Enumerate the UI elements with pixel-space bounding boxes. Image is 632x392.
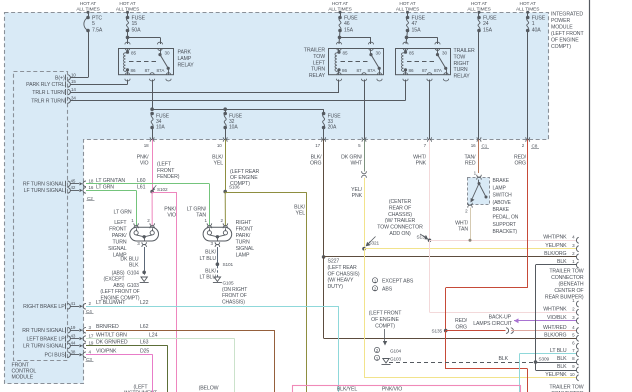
svg-text:CHASSIS): CHASSIS) xyxy=(388,212,412,218)
lamp E1 left front park/turn signal lamp xyxy=(130,227,159,241)
svg-text:LT GRN/TAN: LT GRN/TAN xyxy=(96,178,125,184)
svg-text:LT GRN: LT GRN xyxy=(114,210,132,216)
svg-text:RELAY: RELAY xyxy=(454,74,471,80)
svg-text:C1: C1 xyxy=(482,144,488,149)
svg-text:(BENEATH: (BENEATH xyxy=(558,282,583,288)
svg-text:RIGHT BRAKE LP: RIGHT BRAKE LP xyxy=(23,304,65,310)
wire BLK S309 to 7-way pin9 xyxy=(535,362,537,370)
circuit breaker PTC 5 7.5A xyxy=(86,16,90,20)
svg-text:TURN: TURN xyxy=(311,67,325,73)
svg-text:TOW CONNECTOR: TOW CONNECTOR xyxy=(377,225,423,231)
wire fuse47 to TT-right relay 85/30 xyxy=(406,31,408,45)
svg-text:B(+): B(+) xyxy=(55,75,65,81)
wire fuse1 to C8 pin2 xyxy=(527,31,529,140)
wire RED/ORG S135 to inline connector xyxy=(446,330,506,332)
svg-text:44: 44 xyxy=(71,341,76,346)
svg-text:S101: S101 xyxy=(223,262,234,267)
trailer tow connector bracket xyxy=(589,0,591,392)
wire RED/ORG fuse1/C8 down and to S135 xyxy=(527,140,529,288)
svg-text:LT BLU: LT BLU xyxy=(199,256,216,262)
relay K3 trailer tow right turn relay xyxy=(396,49,451,75)
svg-text:PEDAL, ON: PEDAL, ON xyxy=(493,215,519,221)
svg-text:ADD ON): ADD ON) xyxy=(389,231,411,237)
svg-text:YEL: YEL xyxy=(295,211,305,217)
svg-text:(ABOVE: (ABOVE xyxy=(493,200,512,206)
svg-text:SIGNAL: SIGNAL xyxy=(108,246,127,252)
svg-text:RELAY: RELAY xyxy=(309,73,326,79)
svg-text:86: 86 xyxy=(342,68,347,73)
IPM connector pin 16 xyxy=(477,137,481,139)
svg-text:WHT/LT GRN: WHT/LT GRN xyxy=(96,332,127,338)
svg-text:10: 10 xyxy=(71,72,76,77)
svg-text:42: 42 xyxy=(71,185,76,190)
svg-text:G105: G105 xyxy=(223,280,235,285)
svg-text:FRONT OF: FRONT OF xyxy=(222,293,247,299)
svg-text:LAMP: LAMP xyxy=(178,56,192,62)
svg-text:BRACKET): BRACKET) xyxy=(493,229,518,235)
svg-text:LR TURN SIGNAL: LR TURN SIGNAL xyxy=(23,344,65,350)
svg-text:TURN: TURN xyxy=(454,67,468,73)
trailer tow connector 7-way pin 1 xyxy=(576,301,578,307)
svg-text:LAMP: LAMP xyxy=(236,252,250,258)
svg-text:14: 14 xyxy=(71,87,76,92)
svg-text:TURN: TURN xyxy=(112,239,126,245)
trailer tow connector 7-way pin 7 LT BLU xyxy=(576,351,578,357)
svg-text:FRONT: FRONT xyxy=(236,226,254,232)
wire trlr r turn to K3 pin 86 xyxy=(70,100,406,102)
svg-text:RED: RED xyxy=(465,161,476,167)
svg-text:PARK: PARK xyxy=(178,50,192,56)
front control module box xyxy=(14,72,68,361)
svg-text:OF CHASSIS): OF CHASSIS) xyxy=(328,271,360,277)
svg-text:34: 34 xyxy=(71,95,76,100)
svg-text:17: 17 xyxy=(89,333,94,338)
svg-text:RF TURN SIGNAL: RF TURN SIGNAL xyxy=(23,182,65,188)
svg-text:PARK RLY CTRL: PARK RLY CTRL xyxy=(26,82,65,88)
svg-text:S227: S227 xyxy=(328,259,340,265)
svg-text:(LEFT FRONT OF: (LEFT FRONT OF xyxy=(100,289,139,295)
svg-text:L22: L22 xyxy=(140,300,149,306)
svg-text:(ABS): (ABS) xyxy=(112,270,125,276)
svg-text:LT BLU: LT BLU xyxy=(199,275,216,281)
svg-text:(CENTER: (CENTER xyxy=(389,199,412,205)
trailer tow connector 7-way pin 2 WHT/PNK xyxy=(576,309,578,315)
svg-text:WHT/RED: WHT/RED xyxy=(543,325,567,331)
node S106 xyxy=(223,190,227,194)
svg-text:(LEFT: (LEFT xyxy=(157,162,172,168)
svg-text:15A: 15A xyxy=(483,28,493,34)
fuse F46 15A xyxy=(338,16,342,20)
wire PNK/VIO from fuse34 to S102 xyxy=(152,140,154,192)
wire YEL/PNK to S321 xyxy=(364,178,366,249)
svg-text:TOW: TOW xyxy=(454,54,466,60)
svg-text:24: 24 xyxy=(483,21,489,27)
wire BLK/YEL S106 to right lamp pin2 xyxy=(224,192,226,226)
svg-text:5: 5 xyxy=(92,21,95,27)
wire BLK/YEL S106 branch down xyxy=(225,192,306,194)
svg-text:(LEFT FRONT: (LEFT FRONT xyxy=(551,31,584,37)
wire BLK/LT BLU S101 to G105 xyxy=(217,266,219,277)
svg-text:RIGHT: RIGHT xyxy=(454,61,471,67)
svg-text:L24: L24 xyxy=(149,332,158,338)
svg-text:OF ENGINE: OF ENGINE xyxy=(551,38,579,44)
svg-text:YEL: YEL xyxy=(213,161,223,167)
wire fuse15 to park relay 85/30 xyxy=(127,31,129,45)
svg-text:COMPT): COMPT) xyxy=(375,323,395,329)
svg-text:TAN: TAN xyxy=(458,227,468,233)
wire BLK/YEL from fuse32 to S106 xyxy=(225,140,227,192)
node S130 xyxy=(428,239,432,243)
svg-text:YEL/PNK: YEL/PNK xyxy=(545,372,567,378)
svg-text:VIO/PNK: VIO/PNK xyxy=(96,349,117,355)
ground G103 (except ABS) xyxy=(144,272,146,276)
IPM connector pin 17 xyxy=(322,137,326,139)
svg-text:CONTROL: CONTROL xyxy=(12,369,37,375)
ground G105 xyxy=(214,277,220,282)
trailer tow connector 7-way pin 8 BLK xyxy=(576,359,578,365)
svg-text:PARK/: PARK/ xyxy=(112,233,127,239)
svg-text:10: 10 xyxy=(570,372,575,377)
bottom connector box xyxy=(293,386,521,392)
svg-text:85: 85 xyxy=(131,51,136,56)
svg-text:TRAILER TOW: TRAILER TOW xyxy=(549,269,583,275)
svg-text:BACK-UP: BACK-UP xyxy=(489,315,512,321)
svg-text:FENDER): FENDER) xyxy=(157,174,180,180)
wire YEL/PNK S321 to trailer connector pin3 xyxy=(364,248,577,250)
wire WHT/PNK S130 down to 7-way pin2 xyxy=(429,240,431,312)
fuse F34 10A xyxy=(150,112,154,116)
svg-text:HOT AT: HOT AT xyxy=(119,1,135,7)
svg-text:45: 45 xyxy=(71,179,76,184)
svg-text:S135: S135 xyxy=(431,329,442,334)
svg-text:BRAKE: BRAKE xyxy=(493,207,510,213)
svg-text:87: 87 xyxy=(145,68,150,73)
svg-text:L63: L63 xyxy=(140,340,149,346)
svg-text:OF ENGINE: OF ENGINE xyxy=(371,317,399,323)
svg-text:CONNECTOR: CONNECTOR xyxy=(551,275,584,281)
svg-text:EXCEPT ABS: EXCEPT ABS xyxy=(382,279,414,285)
svg-text:(EXCEPT: (EXCEPT xyxy=(104,277,125,283)
svg-text:19: 19 xyxy=(71,325,76,330)
node S309 xyxy=(534,360,538,364)
svg-text:PCI BUS: PCI BUS xyxy=(45,353,66,359)
IPM connector pin 7 xyxy=(428,137,432,139)
svg-text:15A: 15A xyxy=(412,28,422,34)
svg-text:40A: 40A xyxy=(532,28,542,34)
svg-text:S106: S106 xyxy=(229,185,240,190)
IPM connector pin 10 xyxy=(223,137,227,139)
svg-text:85: 85 xyxy=(343,51,348,56)
svg-text:G104: G104 xyxy=(127,270,139,276)
wire BLK/ORG S227 to trailer connector pin2 xyxy=(324,256,577,258)
inline connector to WHT/RED xyxy=(506,328,509,334)
svg-text:15A: 15A xyxy=(344,28,354,34)
svg-text:TRAILER TOW: TRAILER TOW xyxy=(549,385,583,391)
IPM connector pin 2 xyxy=(526,137,530,139)
lamp E2 right front park/turn signal lamp xyxy=(203,227,232,241)
wire K2 87 down to pin 5 xyxy=(364,80,366,140)
svg-text:BLK/YEL: BLK/YEL xyxy=(337,387,358,392)
svg-text:S102: S102 xyxy=(157,187,168,192)
svg-text:87A: 87A xyxy=(434,68,443,73)
svg-text:C2: C2 xyxy=(87,196,93,201)
svg-text:CHASSIS): CHASSIS) xyxy=(222,300,245,306)
svg-text:DUTY): DUTY) xyxy=(328,284,344,290)
wire PNK/VIO S102 to left lamp pin2 xyxy=(151,192,153,226)
wire BLK 4-way pin1 to S309 xyxy=(536,264,577,266)
svg-text:46: 46 xyxy=(344,21,350,27)
svg-text:87A: 87A xyxy=(368,68,377,73)
svg-text:TRAILER: TRAILER xyxy=(454,48,476,54)
svg-text:HOT AT: HOT AT xyxy=(520,1,536,7)
svg-text:(W/ TRAILER: (W/ TRAILER xyxy=(385,218,416,224)
svg-text:HOT AT: HOT AT xyxy=(80,1,96,7)
wire YEL/PNK S321 down to trailer connector pin10 xyxy=(364,249,366,378)
svg-text:C8: C8 xyxy=(532,144,538,149)
svg-text:FRONT: FRONT xyxy=(12,362,30,368)
svg-text:BLK/ORG: BLK/ORG xyxy=(544,251,566,257)
svg-text:HOT AT: HOT AT xyxy=(399,1,415,7)
wire fuse24 to C1 pin16 xyxy=(478,31,480,140)
wire PTC to FCM B(+) xyxy=(88,31,90,78)
wire PNK/VIO S102 branch down xyxy=(152,192,177,194)
svg-text:ORG: ORG xyxy=(514,161,526,167)
ground symbol G103/G104 xyxy=(383,359,389,364)
relay K1 park lamp relay xyxy=(119,49,174,75)
svg-text:CENTER OF: CENTER OF xyxy=(554,288,583,294)
svg-text:YEL/PNK: YEL/PNK xyxy=(545,243,567,249)
fuse F1 40A xyxy=(526,16,530,20)
wire WHT/RED to 7-way pin4 xyxy=(511,330,577,332)
svg-text:WHT/PNK: WHT/PNK xyxy=(543,307,567,313)
trailer tow connector 7-way pin 4 WHT/RED xyxy=(576,328,578,334)
wire K1 87 to fuse tee xyxy=(152,80,154,110)
svg-text:BLK/ORG: BLK/ORG xyxy=(544,333,566,339)
svg-text:BLK: BLK xyxy=(498,356,508,362)
svg-text:47: 47 xyxy=(412,21,418,27)
svg-text:TRAILER: TRAILER xyxy=(304,48,326,54)
trailer tow connector 7-way pin 6 xyxy=(576,343,578,349)
svg-text:G103: G103 xyxy=(127,283,139,289)
wire fuse46 to TT-left relay 85/30 xyxy=(339,31,340,45)
svg-text:LT BLU: LT BLU xyxy=(550,348,567,354)
svg-text:BLK: BLK xyxy=(557,356,567,362)
svg-text:G104: G104 xyxy=(390,349,402,354)
trailer tow connector 7-way pin 5 BLK/ORG xyxy=(576,335,578,341)
svg-text:SUPPORT: SUPPORT xyxy=(493,222,516,228)
svg-text:MODULE: MODULE xyxy=(12,375,34,381)
svg-text:ORG: ORG xyxy=(310,161,322,167)
svg-text:REAR BUMPER): REAR BUMPER) xyxy=(545,295,584,301)
svg-text:SIGNAL: SIGNAL xyxy=(236,246,255,252)
svg-text:LEFT: LEFT xyxy=(114,220,127,226)
svg-text:BRN/RED: BRN/RED xyxy=(96,324,119,330)
svg-text:ORG: ORG xyxy=(455,325,467,331)
svg-text:LEFT BRAKE LP: LEFT BRAKE LP xyxy=(26,336,65,342)
svg-text:TOW: TOW xyxy=(313,54,325,60)
svg-text:17: 17 xyxy=(315,143,320,148)
svg-text:30: 30 xyxy=(442,51,447,56)
trailer tow connector 7-way pin 3 VIO/BLK xyxy=(576,318,578,324)
wire WHT/TAN sw to WHT/PNK row xyxy=(470,208,472,241)
svg-text:87: 87 xyxy=(357,68,362,73)
svg-text:HOT AT: HOT AT xyxy=(471,1,487,7)
legend except abs xyxy=(372,278,377,283)
svg-text:BRAKE: BRAKE xyxy=(493,178,510,184)
IPM connector pin 18 xyxy=(150,137,154,139)
wire BLK/ORG S227 down to trailer connector pin5 xyxy=(323,257,325,338)
svg-text:16: 16 xyxy=(471,143,476,148)
svg-text:10A: 10A xyxy=(156,125,165,131)
svg-text:DK BLU: DK BLU xyxy=(120,256,138,262)
svg-text:86: 86 xyxy=(131,68,136,73)
svg-text:(LEFT REAR: (LEFT REAR xyxy=(328,265,358,271)
svg-text:L62: L62 xyxy=(140,324,149,330)
svg-text:19: 19 xyxy=(89,341,94,346)
svg-text:RIGHT: RIGHT xyxy=(236,220,253,226)
svg-text:(LEFT FRONT: (LEFT FRONT xyxy=(369,311,402,317)
svg-text:L60: L60 xyxy=(137,178,146,184)
node S135 xyxy=(444,329,448,333)
wire BLK S309 to 7-way pin8 xyxy=(536,362,577,364)
wire BLK/ORG from fuse33 to S227 xyxy=(323,140,325,257)
svg-text:7.5A: 7.5A xyxy=(92,28,103,34)
wire trlr l turn to K2 pin 86 xyxy=(70,92,339,94)
svg-text:30: 30 xyxy=(165,51,170,56)
wire LT BLU to 7-way pin7 xyxy=(519,354,521,392)
fuse F24 15A xyxy=(477,16,481,20)
svg-text:COMPT): COMPT) xyxy=(551,44,571,50)
svg-text:(LEFT: (LEFT xyxy=(134,384,149,390)
svg-text:POWER: POWER xyxy=(551,18,570,24)
svg-text:FRONT: FRONT xyxy=(157,168,175,174)
svg-text:TRLR L TURN: TRLR L TURN xyxy=(32,90,65,96)
svg-text:PARK/: PARK/ xyxy=(236,233,251,239)
svg-text:41: 41 xyxy=(71,301,76,306)
svg-text:LT BLU/WHT: LT BLU/WHT xyxy=(96,300,126,306)
svg-text:10: 10 xyxy=(217,143,222,148)
trailer tow connector 7-way pin 10 YEL/PNK xyxy=(576,375,578,381)
svg-text:LAMP: LAMP xyxy=(493,185,507,191)
svg-text:BLK: BLK xyxy=(129,262,139,268)
svg-text:WHT/PNK: WHT/PNK xyxy=(543,235,567,241)
svg-text:WHT: WHT xyxy=(350,161,362,167)
svg-text:ABS): ABS) xyxy=(113,283,125,289)
svg-text:(BELOW: (BELOW xyxy=(199,385,219,391)
svg-text:DK GRN/RED: DK GRN/RED xyxy=(96,340,128,346)
svg-text:PNK/VIO: PNK/VIO xyxy=(382,387,402,392)
svg-text:LEFT: LEFT xyxy=(313,60,326,66)
wire park rly ctrl to relay 86 xyxy=(70,84,128,86)
fuse F15 50A xyxy=(126,16,130,20)
svg-text:HOT AT: HOT AT xyxy=(332,1,348,7)
IPM connector pin 5 xyxy=(362,137,366,139)
svg-text:BLK/: BLK/ xyxy=(205,268,217,274)
node S102 xyxy=(150,190,154,194)
svg-text:MODULE: MODULE xyxy=(551,25,573,31)
svg-text:PNK: PNK xyxy=(352,193,363,199)
ground node G104 (ABS) xyxy=(142,271,146,275)
svg-text:RED/: RED/ xyxy=(455,318,468,324)
svg-text:BLK/: BLK/ xyxy=(205,250,217,256)
svg-text:REAR OF: REAR OF xyxy=(389,205,411,211)
svg-text:VIO/BLK: VIO/BLK xyxy=(547,315,567,321)
wire TAN/RED fuse24 to brake lamp switch xyxy=(478,140,480,174)
wire BLK dashed ground to S309 xyxy=(389,362,534,364)
wire K3 87 down to pin 7 xyxy=(429,80,431,140)
node S321 xyxy=(362,247,366,251)
trailer tow connector 7-way pin 9 BLK xyxy=(576,367,578,373)
svg-text:(ON RIGHT: (ON RIGHT xyxy=(222,287,247,293)
svg-text:VIO: VIO xyxy=(167,213,176,219)
svg-text:18: 18 xyxy=(89,179,94,184)
svg-text:LT GRN: LT GRN xyxy=(96,185,114,191)
fuse F47 15A xyxy=(406,16,410,20)
svg-text:10A: 10A xyxy=(229,125,238,131)
wire WHT/PNK S130 to trailer connector pin4 xyxy=(430,240,577,242)
svg-text:(W/ HEAVY: (W/ HEAVY xyxy=(328,278,354,284)
wire WHT/PNK from K3 87 to S130 xyxy=(429,140,431,241)
wire DK BLU / BLK left lamp to ground xyxy=(144,247,146,271)
svg-text:15: 15 xyxy=(71,79,76,84)
svg-text:16: 16 xyxy=(89,185,94,190)
svg-text:C4: C4 xyxy=(86,309,92,314)
svg-text:50A: 50A xyxy=(132,28,142,34)
svg-text:1: 1 xyxy=(532,21,535,27)
fuse F32 10A xyxy=(225,109,227,113)
svg-text:RR TURN SIGNAL: RR TURN SIGNAL xyxy=(22,328,65,334)
svg-text:86: 86 xyxy=(409,68,414,73)
svg-text:43: 43 xyxy=(71,333,76,338)
svg-text:ABS: ABS xyxy=(382,287,393,293)
svg-text:G103: G103 xyxy=(390,356,402,361)
svg-text:RELAY: RELAY xyxy=(178,63,195,69)
relay K2 trailer tow left turn relay xyxy=(329,49,384,75)
svg-text:30: 30 xyxy=(376,51,381,56)
svg-text:C3: C3 xyxy=(86,357,92,362)
brake lamp switch SW1 xyxy=(468,178,490,205)
svg-text:TRLR R TURN: TRLR R TURN xyxy=(31,98,65,104)
wire DK GRN/WHT from K2 87 xyxy=(364,140,366,172)
svg-text:15: 15 xyxy=(132,21,138,27)
svg-text:20A: 20A xyxy=(328,125,337,131)
inline connector C143 xyxy=(362,171,367,174)
wire RED/ORG S135 down to back-up lamps feed xyxy=(445,331,447,369)
svg-text:FRONT: FRONT xyxy=(109,226,127,232)
svg-text:LF TURN SIGNAL: LF TURN SIGNAL xyxy=(24,188,65,194)
node S227 xyxy=(322,255,326,259)
node S101 xyxy=(216,262,220,266)
svg-text:87: 87 xyxy=(422,68,427,73)
fuse F33 20A xyxy=(323,109,325,113)
svg-text:VIO: VIO xyxy=(140,161,149,167)
svg-text:BLK: BLK xyxy=(557,364,567,370)
svg-text:TURN: TURN xyxy=(236,239,250,245)
svg-text:S309: S309 xyxy=(539,356,550,361)
wire BLK/LT BLU right lamp to S101 xyxy=(217,247,219,263)
svg-text:SWITCH: SWITCH xyxy=(493,193,513,199)
svg-text:D25: D25 xyxy=(140,349,149,355)
svg-text:INTEGRATED: INTEGRATED xyxy=(551,12,583,18)
svg-text:85: 85 xyxy=(409,51,414,56)
svg-text:LAMPS CIRCUIT: LAMPS CIRCUIT xyxy=(473,321,513,327)
svg-text:L61: L61 xyxy=(137,185,146,191)
svg-text:PNK: PNK xyxy=(416,161,427,167)
svg-text:87A: 87A xyxy=(157,68,166,73)
svg-text:38: 38 xyxy=(71,350,76,355)
svg-text:18: 18 xyxy=(144,143,149,148)
